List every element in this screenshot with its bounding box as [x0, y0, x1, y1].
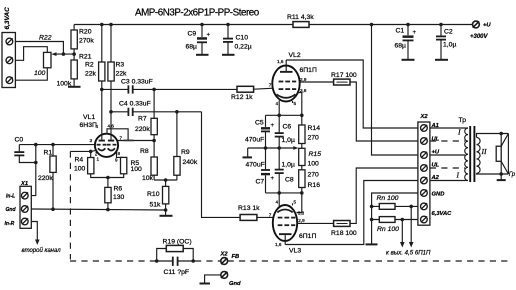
svg-text:7: 7 [269, 213, 272, 218]
svg-text:X2: X2 [420, 114, 429, 120]
svg-text:6П1П: 6П1П [299, 233, 316, 240]
svg-text:к вых. 4,5 6П1П: к вых. 4,5 6П1П [386, 250, 431, 257]
svg-text:R16: R16 [308, 182, 321, 189]
svg-text:220k: 220k [135, 126, 150, 133]
svg-text:51k: 51k [150, 202, 162, 209]
svg-text:R1: R1 [44, 150, 53, 157]
svg-text:C8: C8 [285, 177, 294, 184]
svg-text:8: 8 [118, 151, 121, 156]
svg-text:R18 100: R18 100 [331, 230, 357, 237]
svg-text:5: 5 [294, 101, 297, 106]
svg-text:+300V: +300V [470, 34, 489, 40]
svg-text:100: 100 [308, 161, 320, 168]
svg-text:220k: 220k [38, 175, 53, 182]
svg-text:R19 (ОС): R19 (ОС) [163, 239, 192, 246]
svg-text:1,0µ: 1,0µ [443, 42, 456, 49]
svg-text:R12 1k: R12 1k [231, 94, 253, 101]
svg-text:R9: R9 [181, 149, 190, 156]
svg-text:C1: C1 [396, 28, 405, 35]
svg-text:100: 100 [131, 166, 143, 173]
svg-text:C4 0.33uF: C4 0.33uF [119, 101, 151, 108]
svg-text:второй канал: второй канал [22, 247, 62, 254]
svg-text:II: II [481, 147, 487, 156]
svg-text:3: 3 [90, 138, 93, 143]
svg-text:R14: R14 [308, 125, 321, 132]
svg-text:Гр: Гр [509, 172, 516, 178]
svg-text:270: 270 [308, 135, 320, 142]
svg-text:VL3: VL3 [289, 248, 301, 255]
svg-text:R3: R3 [116, 62, 125, 69]
svg-text:R17 100: R17 100 [331, 72, 357, 79]
svg-text:4: 4 [276, 101, 279, 106]
svg-text:7: 7 [269, 83, 272, 88]
svg-text:+: + [413, 30, 417, 36]
svg-text:4: 4 [96, 124, 99, 129]
svg-text:VL2: VL2 [289, 52, 301, 59]
svg-text:1,0µ: 1,0µ [282, 162, 295, 169]
svg-text:100: 100 [34, 70, 46, 77]
svg-text:Тр: Тр [459, 117, 467, 124]
svg-text:100: 100 [74, 166, 86, 173]
svg-text:C10: C10 [236, 35, 249, 42]
svg-text:6Н3П: 6Н3П [80, 122, 97, 129]
svg-text:X2: X2 [220, 252, 229, 258]
svg-text:+: + [271, 176, 275, 182]
svg-text:In-R: In-R [5, 221, 15, 227]
svg-text:270: 270 [308, 172, 320, 179]
svg-text:I: I [456, 171, 460, 180]
svg-text:2,9: 2,9 [300, 77, 307, 82]
svg-text:R22: R22 [39, 35, 52, 42]
svg-text:R20: R20 [79, 29, 92, 36]
svg-text:Gnd: Gnd [6, 207, 17, 213]
svg-text:C9: C9 [188, 31, 197, 38]
svg-text:R7: R7 [138, 116, 147, 123]
svg-text:R4: R4 [75, 157, 84, 164]
svg-text:470uF: 470uF [246, 162, 265, 169]
svg-text:R10: R10 [147, 191, 160, 198]
svg-text:C11 ?pF: C11 ?pF [164, 269, 190, 276]
svg-text:6,3VAC: 6,3VAC [432, 211, 453, 217]
svg-text:130: 130 [113, 194, 125, 201]
svg-text:22k: 22k [116, 71, 128, 78]
svg-text:R21: R21 [79, 54, 92, 61]
svg-text:R15: R15 [309, 151, 322, 158]
svg-text:4: 4 [276, 200, 279, 205]
svg-text:470uF: 470uF [245, 137, 264, 144]
svg-text:22k: 22k [85, 71, 97, 78]
svg-text:6,3VAC: 6,3VAC [4, 7, 11, 30]
svg-text:C5: C5 [255, 120, 264, 127]
svg-text:R13 1k: R13 1k [238, 205, 260, 212]
svg-text:3,8: 3,8 [298, 210, 305, 215]
svg-text:Rn 100: Rn 100 [377, 226, 399, 233]
svg-text:2,9: 2,9 [298, 218, 305, 223]
svg-text:1: 1 [97, 157, 100, 162]
svg-text:Rn 100: Rn 100 [377, 195, 399, 202]
svg-text:C7: C7 [256, 179, 265, 186]
svg-text:GND: GND [432, 192, 446, 198]
svg-text:I: I [457, 128, 461, 137]
svg-text:C2: C2 [444, 29, 453, 36]
svg-text:R11 4,3k: R11 4,3k [287, 14, 314, 21]
svg-text:+U: +U [483, 23, 491, 29]
svg-text:100k: 100k [57, 81, 72, 88]
svg-text:C6: C6 [283, 124, 292, 131]
svg-text:R6: R6 [114, 186, 123, 193]
svg-text:7: 7 [120, 136, 123, 141]
svg-text:C0: C0 [15, 137, 24, 144]
svg-text:Gnd: Gnd [229, 281, 241, 287]
svg-text:0,22µ: 0,22µ [235, 44, 252, 51]
svg-text:10k: 10k [142, 175, 154, 182]
svg-text:FB: FB [232, 254, 240, 260]
svg-text:68µ: 68µ [186, 44, 198, 51]
svg-text:6П1П: 6П1П [300, 67, 317, 74]
svg-text:5: 5 [294, 200, 297, 205]
svg-text:+: + [271, 123, 275, 129]
svg-text:C3 0.33uF: C3 0.33uF [121, 79, 153, 86]
svg-text:1,6: 1,6 [275, 242, 282, 247]
svg-text:In-L: In-L [6, 194, 15, 200]
svg-text:68µ: 68µ [395, 43, 407, 50]
svg-text:240k: 240k [183, 159, 198, 166]
svg-text:R8: R8 [140, 148, 149, 155]
svg-text:+: + [207, 33, 211, 39]
svg-text:270k: 270k [79, 38, 94, 45]
svg-text:VL1: VL1 [83, 114, 95, 121]
svg-text:AMP-6N3P-2x6P1P-PP-Stereo: AMP-6N3P-2x6P1P-PP-Stereo [135, 8, 260, 19]
svg-text:4,6: 4,6 [108, 123, 115, 128]
svg-text:1,6: 1,6 [277, 59, 284, 64]
svg-text:9: 9 [115, 158, 118, 163]
svg-text:R2: R2 [85, 62, 94, 69]
svg-text:UL: UL [432, 137, 440, 143]
svg-text:1,0µ: 1,0µ [282, 137, 295, 144]
